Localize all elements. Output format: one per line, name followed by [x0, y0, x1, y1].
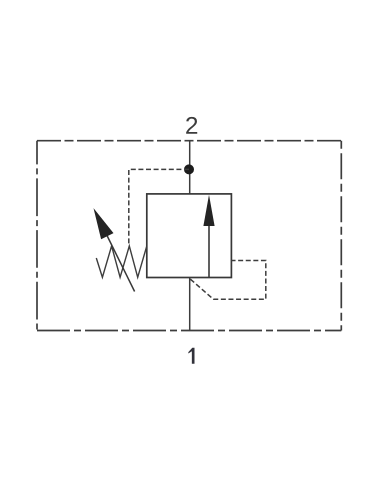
pilot line to tank side (dashed) [190, 261, 265, 300]
wire: port 1 line (valve body to bottom border) [189, 278, 191, 331]
port label 1 [188, 348, 194, 364]
pilot line from junction to spring (dashed) [129, 169, 189, 245]
spring (zigzag) [96, 246, 146, 277]
envelope right edge (dashed) [340, 141, 342, 331]
wire: port 2 line (top border to valve body) [189, 141, 191, 194]
junction dot [184, 164, 194, 174]
port label 2 [186, 117, 197, 134]
adjustment arrow across spring [94, 208, 135, 291]
valve body square [147, 194, 232, 278]
envelope top edge (dashed) [37, 140, 341, 142]
envelope left edge (dashed) [36, 141, 38, 331]
flow path arrow inside body [203, 195, 214, 278]
envelope bottom edge (dashed) [37, 330, 341, 332]
